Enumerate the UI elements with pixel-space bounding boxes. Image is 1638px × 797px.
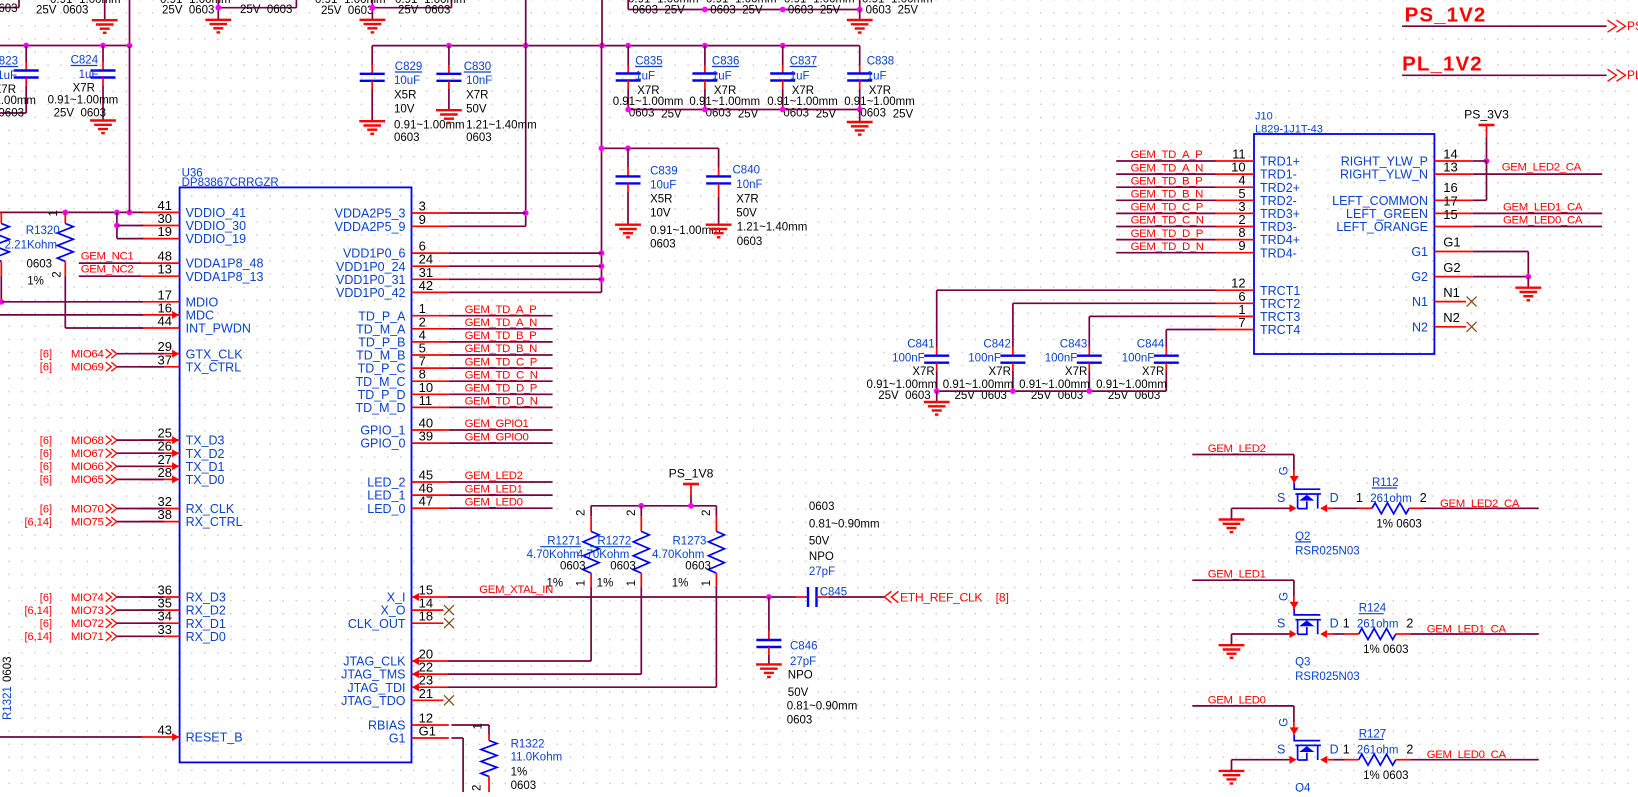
svg-text:1uF: 1uF bbox=[79, 69, 99, 81]
resistor R1273 body bbox=[708, 531, 724, 573]
svg-text:R112: R112 bbox=[1372, 477, 1399, 489]
wire PL_1V2 bbox=[1402, 74, 1607, 76]
wire (top partial row above C835..C838) bbox=[627, 0, 629, 10]
svg-text:0.91~1.00mm: 0.91~1.00mm bbox=[706, 0, 777, 6]
svg-text:RSR025N03: RSR025N03 bbox=[1295, 545, 1360, 557]
svg-text:GEM_LED0_CA: GEM_LED0_CA bbox=[1503, 214, 1583, 226]
wire GEM_XTAL_IN (X_I to C845) bbox=[448, 596, 795, 598]
svg-text:GEM_TD_D_P: GEM_TD_D_P bbox=[1131, 228, 1203, 240]
svg-text:TRCT3: TRCT3 bbox=[1260, 310, 1300, 324]
svg-text:GEM_GPIO0: GEM_GPIO0 bbox=[465, 431, 529, 443]
capacitor C846 bbox=[768, 597, 770, 631]
wire GEM_TD_A_P bbox=[449, 315, 553, 317]
wire (pullup bus) bbox=[591, 505, 716, 507]
junction bbox=[688, 503, 694, 509]
junction bbox=[114, 210, 120, 216]
svg-text:44: 44 bbox=[158, 314, 172, 329]
wire (bottom bus of C835..C838) bbox=[628, 109, 860, 111]
svg-text:0.91~1.00mm: 0.91~1.00mm bbox=[394, 120, 465, 132]
wire (C845 to ETH_REF_CLK) bbox=[829, 596, 884, 598]
pin 34 (RX_D1) of U36 bbox=[140, 622, 179, 624]
svg-text:GEM_LED1: GEM_LED1 bbox=[1208, 569, 1266, 581]
capacitor C843 plates bbox=[1077, 356, 1102, 363]
svg-text:GEM_NC2: GEM_NC2 bbox=[81, 264, 134, 276]
pin N2 of J10 bbox=[1434, 326, 1466, 328]
svg-text:0.81~0.90mm: 0.81~0.90mm bbox=[787, 700, 858, 712]
capacitor C842 bbox=[1012, 347, 1014, 356]
svg-text:RX_D1: RX_D1 bbox=[186, 617, 226, 631]
svg-text:C835: C835 bbox=[635, 56, 663, 68]
svg-text:261ohm: 261ohm bbox=[1357, 619, 1399, 631]
capacitor C841 plates bbox=[924, 356, 949, 363]
svg-text:X7R: X7R bbox=[466, 89, 488, 101]
wire GEM_GPIO1 bbox=[449, 429, 553, 431]
wire JTAG_TMS to R1272 bbox=[448, 673, 641, 675]
svg-text:[6]: [6] bbox=[40, 349, 52, 361]
wire (cut-off cap group, far left) bbox=[0, 7, 19, 9]
svg-text:R1271: R1271 bbox=[547, 536, 581, 548]
svg-text:100nF: 100nF bbox=[1122, 352, 1155, 364]
svg-text:[6]: [6] bbox=[40, 503, 52, 515]
resistor R1322 bbox=[488, 734, 490, 741]
svg-text:39: 39 bbox=[419, 429, 433, 444]
pin 14 (RIGHT_YLW_P) of J10 bbox=[1434, 160, 1472, 162]
svg-text:4.70Kohm: 4.70Kohm bbox=[577, 549, 629, 561]
svg-text:0.91~1.00mm: 0.91~1.00mm bbox=[315, 0, 386, 6]
wire GEM_LED1_CA bbox=[1473, 212, 1603, 214]
svg-text:Q3: Q3 bbox=[1295, 657, 1310, 669]
svg-text:C836: C836 bbox=[712, 56, 740, 68]
junction bbox=[702, 107, 708, 113]
resistor R1271 bbox=[590, 506, 592, 517]
pin G2 of J10 bbox=[1434, 276, 1472, 278]
svg-text:1: 1 bbox=[1356, 491, 1363, 505]
ground bbox=[706, 225, 732, 238]
svg-text:PL_1V2: PL_1V2 bbox=[1402, 53, 1483, 76]
wire GEM_TD_C_P bbox=[1116, 212, 1215, 214]
svg-text:VDDIO_30: VDDIO_30 bbox=[186, 219, 246, 233]
svg-text:VDD1P0_24: VDD1P0_24 bbox=[336, 260, 406, 274]
junction bbox=[625, 145, 631, 151]
svg-text:DP83867CRRGZR: DP83867CRRGZR bbox=[182, 177, 279, 189]
svg-text:11.0Kohm: 11.0Kohm bbox=[511, 751, 563, 763]
wire (C839/C840 bus) bbox=[602, 147, 719, 149]
wire (source to ground) bbox=[1232, 759, 1290, 761]
pin 10 (TD_P_D) of U36 bbox=[412, 393, 449, 395]
capacitor C845 plates bbox=[808, 587, 817, 607]
svg-text:MDIO: MDIO bbox=[186, 295, 219, 309]
svg-text:MIO73: MIO73 bbox=[71, 605, 104, 617]
svg-text:X7R: X7R bbox=[1142, 366, 1164, 378]
svg-text:X7R: X7R bbox=[73, 83, 95, 95]
resistor R124 body bbox=[1359, 629, 1396, 640]
svg-text:RX_CLK: RX_CLK bbox=[186, 502, 235, 516]
svg-text:C837: C837 bbox=[790, 56, 818, 68]
svg-text:MIO65: MIO65 bbox=[71, 474, 104, 486]
svg-text:X7R: X7R bbox=[714, 85, 736, 97]
wire (vertical from top to bus) bbox=[129, 0, 131, 46]
junction bbox=[599, 145, 605, 151]
capacitor C830 bbox=[448, 46, 450, 65]
resistor R1272 body bbox=[633, 531, 649, 573]
svg-text:X7R: X7R bbox=[989, 366, 1011, 378]
svg-text:GEM_TD_A_P: GEM_TD_A_P bbox=[1131, 149, 1203, 161]
svg-text:VDDA1P8_48: VDDA1P8_48 bbox=[186, 257, 264, 271]
wire GEM_TD_C_N bbox=[1116, 226, 1215, 228]
ground bbox=[847, 122, 873, 135]
off-page connector PS_1V2 bbox=[1608, 20, 1626, 32]
svg-text:MIO75: MIO75 bbox=[71, 516, 104, 528]
junction bbox=[625, 107, 631, 113]
svg-text:7: 7 bbox=[1238, 315, 1245, 330]
svg-text:0603: 0603 bbox=[860, 107, 886, 119]
svg-text:MIO74: MIO74 bbox=[71, 592, 104, 604]
junction bbox=[114, 223, 120, 229]
pin 5 (TD_M_B) of U36 bbox=[412, 354, 449, 356]
wire MIO75 bbox=[117, 521, 164, 523]
wire (vertical x=601.5 bus to VDD1P0 rows) bbox=[601, 46, 603, 293]
pin 10 (TRD1-) of J10 bbox=[1216, 173, 1255, 175]
svg-text:RESET_B: RESET_B bbox=[186, 731, 243, 745]
wire TRCT net to C842 bbox=[1013, 302, 1216, 304]
svg-text:NPO: NPO bbox=[809, 551, 834, 563]
svg-text:N2: N2 bbox=[1412, 320, 1428, 334]
svg-text:0.91~1.00mm: 0.91~1.00mm bbox=[650, 225, 721, 237]
svg-text:TD_M_B: TD_M_B bbox=[356, 349, 405, 363]
pin 47 (LED_0) of U36 bbox=[412, 507, 449, 509]
pin 38 (RX_CTRL) of U36 bbox=[140, 521, 179, 523]
wire MIO69 bbox=[117, 366, 164, 368]
svg-text:VDD1P0_31: VDD1P0_31 bbox=[336, 273, 406, 287]
wire TRCT net to C844 bbox=[1166, 329, 1215, 331]
wire (R1320 bottom to INT_PWDN) bbox=[64, 276, 66, 328]
svg-text:VDDIO_41: VDDIO_41 bbox=[186, 206, 246, 220]
pin 16 (LEFT_COMMON) of J10 bbox=[1434, 199, 1472, 201]
svg-text:D: D bbox=[1330, 617, 1339, 631]
svg-text:11: 11 bbox=[419, 393, 433, 408]
svg-text:D: D bbox=[1330, 742, 1339, 756]
svg-text:0.91~1.00mm: 0.91~1.00mm bbox=[50, 0, 121, 6]
junction bbox=[1484, 158, 1490, 164]
pin 7 (TD_P_C) of U36 bbox=[412, 367, 449, 369]
svg-text:LEFT_COMMON: LEFT_COMMON bbox=[1332, 194, 1428, 208]
resistor (cut at left edge) bbox=[0, 212, 2, 223]
resistor R112 body bbox=[1372, 503, 1409, 514]
wire MIO71 bbox=[117, 635, 164, 637]
svg-text:1uF: 1uF bbox=[0, 70, 17, 82]
pin 23 (JTAG_TDI) of U36 bbox=[412, 686, 449, 688]
svg-text:GTX_CLK: GTX_CLK bbox=[186, 347, 244, 361]
pin 33 (RX_D0) of U36 bbox=[140, 635, 179, 637]
capacitor C838 bbox=[859, 46, 861, 65]
junction bbox=[702, 43, 708, 49]
svg-text:GPIO_0: GPIO_0 bbox=[360, 437, 405, 451]
svg-text:9: 9 bbox=[419, 212, 426, 227]
off-sheet chevron MIO70 bbox=[106, 504, 117, 513]
junction bbox=[599, 250, 605, 256]
svg-text:C830: C830 bbox=[464, 61, 492, 73]
junction bbox=[523, 210, 529, 216]
pin 15 (X_I) of U36 bbox=[412, 596, 449, 598]
pin 12 (RBIAS) of U36 bbox=[412, 724, 449, 726]
wire MIO64 bbox=[117, 353, 164, 355]
wire GEM_LED0 (gate) bbox=[1192, 705, 1294, 707]
svg-text:GEM_TD_C_P: GEM_TD_C_P bbox=[1131, 202, 1203, 214]
svg-text:VDDA2P5_3: VDDA2P5_3 bbox=[335, 207, 406, 221]
svg-text:TD_P_A: TD_P_A bbox=[358, 309, 406, 323]
svg-text:GEM_TD_A_N: GEM_TD_A_N bbox=[1131, 162, 1204, 174]
svg-text:J10: J10 bbox=[1255, 111, 1273, 123]
resistor R127 body bbox=[1359, 754, 1396, 765]
svg-text:0603: 0603 bbox=[394, 132, 420, 144]
svg-text:9: 9 bbox=[1238, 238, 1245, 253]
pin 4 (TD_P_B) of U36 bbox=[412, 341, 449, 343]
pin 17 (MDIO) of U36 bbox=[140, 301, 179, 303]
pin 20 (JTAG_CLK) of U36 bbox=[412, 660, 449, 662]
wire (vertical x=116.9 to VDDIO_30/19) bbox=[116, 212, 118, 238]
svg-text:LED_1: LED_1 bbox=[367, 489, 405, 503]
svg-text:RX_D0: RX_D0 bbox=[186, 630, 226, 644]
svg-text:1: 1 bbox=[626, 580, 638, 586]
pin 30 (VDDIO_30) of U36 bbox=[140, 225, 179, 227]
junction bbox=[934, 388, 940, 394]
pin 1 (TD_P_A) of U36 bbox=[412, 315, 449, 317]
svg-text:TD_M_A: TD_M_A bbox=[356, 322, 406, 336]
svg-text:INT_PWDN: INT_PWDN bbox=[186, 322, 251, 336]
svg-text:TX_D0: TX_D0 bbox=[186, 473, 225, 487]
wire (long vertical x=525.7 from top to VDDA2P5) bbox=[525, 0, 527, 226]
wire (source to ground) bbox=[1232, 507, 1290, 509]
svg-text:[6,14]: [6,14] bbox=[24, 516, 52, 528]
pin 7 (TRCT4) of J10 bbox=[1216, 329, 1255, 331]
svg-text:1uF: 1uF bbox=[712, 71, 732, 83]
wire (top partial row 3) bbox=[371, 0, 373, 20]
wire (drain to R) bbox=[1327, 633, 1333, 635]
wire GEM_LED0_CA bbox=[1410, 759, 1539, 761]
resistor R1322 body bbox=[481, 741, 497, 777]
junction bbox=[599, 43, 605, 49]
pin 4 (TRD2+) of J10 bbox=[1216, 186, 1255, 188]
svg-text:G1: G1 bbox=[389, 732, 406, 746]
svg-text:RX_D2: RX_D2 bbox=[186, 604, 226, 618]
pin 6 (TRCT2) of J10 bbox=[1216, 302, 1255, 304]
junction bbox=[446, 43, 452, 49]
svg-text:0.91~1.00mm: 0.91~1.00mm bbox=[0, 95, 36, 107]
junction bbox=[780, 107, 786, 113]
svg-text:TX_D2: TX_D2 bbox=[186, 447, 225, 461]
junction bbox=[780, 43, 786, 49]
svg-text:100nF: 100nF bbox=[1045, 352, 1078, 364]
off-sheet chevron MIO71 bbox=[106, 632, 117, 641]
no-connect N1 bbox=[1467, 297, 1477, 307]
no-connect bbox=[444, 618, 454, 628]
wire RBIAS to R1322 bbox=[451, 724, 489, 726]
svg-text:TRD3-: TRD3- bbox=[1260, 220, 1297, 234]
wire MDC net bbox=[0, 314, 143, 316]
capacitor C837 bbox=[782, 46, 784, 65]
pin 37 (TX_CTRL) of U36 bbox=[140, 366, 179, 368]
svg-text:PS_1V2: PS_1V2 bbox=[1405, 4, 1487, 27]
svg-text:Q2: Q2 bbox=[1295, 531, 1310, 543]
svg-text:GEM_LED1_CA: GEM_LED1_CA bbox=[1503, 201, 1583, 213]
svg-text:TX_D1: TX_D1 bbox=[186, 460, 225, 474]
svg-text:GEM_NC1: GEM_NC1 bbox=[81, 251, 134, 263]
wire (vertical x=602 top to bus) bbox=[601, 0, 603, 46]
svg-text:13: 13 bbox=[1443, 160, 1457, 175]
off-sheet chevron MIO73 bbox=[106, 606, 117, 615]
pin 41 (VDDIO_41) of U36 bbox=[140, 211, 179, 213]
wire (bus VDDIO top-left) bbox=[0, 45, 130, 47]
svg-text:GEM_TD_C_N: GEM_TD_C_N bbox=[465, 369, 538, 381]
capacitor C829 bbox=[371, 46, 373, 65]
svg-text:C829: C829 bbox=[395, 61, 423, 73]
svg-text:TD_P_B: TD_P_B bbox=[358, 336, 405, 350]
svg-text:RSR025N03: RSR025N03 bbox=[1295, 671, 1360, 683]
pin 16 (MDC) of U36 bbox=[140, 314, 179, 316]
off-sheet chevron MIO69 bbox=[106, 362, 117, 371]
junction bbox=[702, 7, 708, 13]
svg-text:13: 13 bbox=[158, 262, 172, 277]
junction bbox=[766, 594, 772, 600]
capacitor C841 bbox=[936, 347, 938, 356]
pin 36 (RX_D3) of U36 bbox=[140, 596, 179, 598]
svg-text:GEM_XTAL_IN: GEM_XTAL_IN bbox=[479, 584, 553, 596]
svg-text:R1322: R1322 bbox=[511, 738, 545, 750]
svg-text:[6,14]: [6,14] bbox=[24, 631, 52, 643]
svg-text:TRD4-: TRD4- bbox=[1260, 246, 1297, 260]
svg-text:0603: 0603 bbox=[2, 656, 14, 682]
svg-text:2: 2 bbox=[1406, 742, 1413, 756]
capacitor C830 plates bbox=[436, 74, 461, 81]
svg-text:R124: R124 bbox=[1359, 603, 1387, 615]
svg-text:[8]: [8] bbox=[996, 591, 1009, 605]
junction bbox=[215, 5, 221, 11]
svg-text:0603: 0603 bbox=[560, 560, 586, 572]
svg-text:2: 2 bbox=[1420, 491, 1427, 505]
pin 27 (TX_D1) of U36 bbox=[140, 465, 179, 467]
svg-text:TD_P_D: TD_P_D bbox=[358, 388, 406, 402]
svg-text:0603: 0603 bbox=[685, 560, 711, 572]
svg-text:RIGHT_YLW_N: RIGHT_YLW_N bbox=[1340, 168, 1428, 182]
svg-text:0603: 0603 bbox=[27, 259, 53, 271]
svg-text:MDC: MDC bbox=[186, 309, 214, 323]
svg-text:S: S bbox=[1277, 742, 1285, 756]
wire VDD1P0 net bbox=[449, 291, 602, 293]
wire (drain to R) bbox=[1327, 759, 1333, 761]
svg-text:R127: R127 bbox=[1359, 728, 1387, 740]
svg-text:27pF: 27pF bbox=[809, 566, 835, 578]
pin G1 (G1) of U36 bbox=[412, 737, 449, 739]
wire (VDDIO_41 net from left edge) bbox=[0, 211, 143, 213]
svg-text:15: 15 bbox=[1443, 207, 1457, 222]
svg-text:50V: 50V bbox=[736, 208, 757, 220]
svg-text:0603 25V: 0603 25V bbox=[632, 4, 685, 16]
capacitor C840 bbox=[718, 148, 720, 167]
svg-text:TRD1-: TRD1- bbox=[1260, 168, 1297, 182]
capacitor C824 bbox=[102, 46, 104, 63]
junction bbox=[100, 43, 106, 49]
svg-text:GPIO_1: GPIO_1 bbox=[360, 424, 405, 438]
wire (G1/G2 to ground) bbox=[1473, 251, 1529, 253]
svg-text:0603: 0603 bbox=[650, 239, 676, 251]
capacitor C846 plates bbox=[756, 640, 781, 647]
resistor R1271 body bbox=[583, 531, 599, 573]
svg-text:TD_M_C: TD_M_C bbox=[355, 375, 405, 389]
wire GEM_LED2 (gate) bbox=[1192, 454, 1294, 456]
wire (bottom bus C841..C844) bbox=[937, 390, 1167, 392]
wire MIO65 bbox=[117, 478, 164, 480]
svg-text:LED_2: LED_2 bbox=[367, 476, 405, 490]
svg-text:100nF: 100nF bbox=[968, 352, 1001, 364]
svg-text:[6]: [6] bbox=[40, 592, 52, 604]
svg-text:1uF: 1uF bbox=[867, 71, 887, 83]
svg-text:1% 0603: 1% 0603 bbox=[1363, 644, 1408, 656]
resistor R1272 bbox=[640, 506, 642, 517]
resistor R1320 bbox=[64, 212, 66, 223]
wire GEM_LED1 (gate) bbox=[1192, 579, 1294, 581]
svg-text:NPO: NPO bbox=[788, 669, 813, 681]
capacitor C843 bbox=[1088, 347, 1090, 356]
wire MIO68 bbox=[117, 439, 164, 441]
ground bbox=[756, 664, 782, 677]
wire G1 down bbox=[451, 737, 463, 739]
svg-text:S: S bbox=[1277, 617, 1285, 631]
svg-text:CLK_OUT: CLK_OUT bbox=[348, 617, 406, 631]
pin 31 (VDD1P0_31) of U36 bbox=[412, 278, 449, 280]
svg-text:RX_D3: RX_D3 bbox=[186, 591, 226, 605]
svg-text:1: 1 bbox=[701, 580, 713, 586]
ground (C841 bus) bbox=[936, 391, 938, 401]
wire GEM_TD_A_P bbox=[1116, 160, 1215, 162]
pin 44 (INT_PWDN) of U36 bbox=[140, 327, 179, 329]
wire JTAG_CLK to R1271 bbox=[448, 660, 591, 662]
pin 25 (TX_D3) of U36 bbox=[140, 439, 179, 441]
ground bbox=[436, 110, 462, 123]
svg-text:TRD2-: TRD2- bbox=[1260, 194, 1297, 208]
pin 40 (GPIO_1) of U36 bbox=[412, 429, 449, 431]
wire (vertical x=129.5 bus to VDDIO_41) bbox=[129, 46, 131, 213]
IC U36 DP83867CRRGZR body bbox=[180, 187, 412, 762]
pin 9 (TRD4-) of J10 bbox=[1216, 252, 1255, 254]
svg-text:C842: C842 bbox=[983, 338, 1011, 350]
ground bbox=[359, 121, 385, 134]
svg-text:1: 1 bbox=[576, 580, 588, 586]
junction bbox=[127, 210, 133, 216]
svg-text:C846: C846 bbox=[790, 641, 818, 653]
svg-text:1: 1 bbox=[1343, 742, 1350, 756]
svg-text:50V: 50V bbox=[809, 535, 830, 547]
svg-text:GEM_LED2: GEM_LED2 bbox=[465, 470, 523, 482]
svg-text:1: 1 bbox=[48, 210, 60, 216]
svg-text:[6]: [6] bbox=[40, 461, 52, 473]
svg-text:C824: C824 bbox=[71, 55, 99, 67]
svg-text:X7R: X7R bbox=[869, 85, 891, 97]
wire (C823 bottom to left edge) bbox=[0, 112, 26, 114]
wire MIO66 bbox=[117, 465, 164, 467]
svg-text:R1273: R1273 bbox=[673, 536, 707, 548]
svg-text:261ohm: 261ohm bbox=[1370, 493, 1412, 505]
svg-text:MIO72: MIO72 bbox=[71, 618, 104, 630]
svg-text:25V 0603: 25V 0603 bbox=[321, 5, 373, 17]
svg-text:GEM_TD_D_N: GEM_TD_D_N bbox=[1131, 241, 1204, 253]
svg-text:PS_3V3: PS_3V3 bbox=[1464, 108, 1509, 122]
svg-text:G1: G1 bbox=[419, 724, 436, 739]
svg-text:LED_0: LED_0 bbox=[367, 502, 405, 516]
svg-text:G2: G2 bbox=[1411, 270, 1428, 284]
off-sheet chevron MIO74 bbox=[106, 593, 117, 602]
svg-text:2: 2 bbox=[626, 510, 638, 516]
svg-text:TRCT4: TRCT4 bbox=[1260, 323, 1300, 337]
